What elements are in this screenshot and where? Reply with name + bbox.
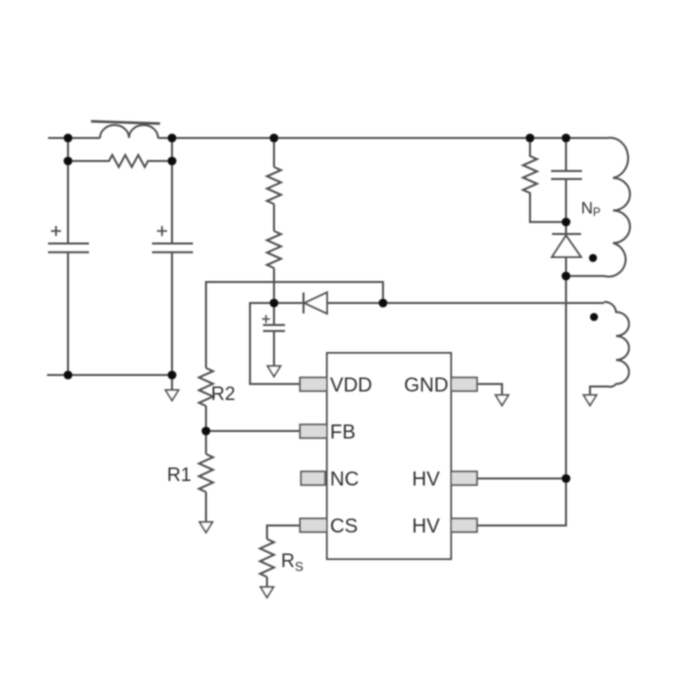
svg-text:R1: R1 <box>167 465 191 486</box>
transformer aux phase dot <box>590 313 598 321</box>
wire FB node to pin <box>206 430 300 432</box>
capacitor snubber plates <box>551 171 582 179</box>
junction diode output node <box>379 299 388 308</box>
wire diode D1 to winding node <box>565 257 567 276</box>
svg-text:NC: NC <box>330 469 359 491</box>
wire node to diode D2 <box>274 302 303 304</box>
junction snubber bottom <box>562 218 571 227</box>
pin CS box <box>300 519 327 533</box>
wire second input rail upper <box>171 138 173 244</box>
svg-text:FB: FB <box>330 422 356 444</box>
ground R1 stub <box>205 492 207 522</box>
wire VDD cap stub <box>273 303 275 325</box>
pin NC box <box>301 472 325 486</box>
capacitor VDD plates <box>263 325 285 331</box>
wire bottom input rail <box>47 374 172 376</box>
resistor snubber <box>523 138 566 222</box>
wire diode D2 to node <box>327 302 383 304</box>
ground input rail stub <box>171 375 173 390</box>
svg-text:CS: CS <box>330 516 358 538</box>
resistor Rs <box>260 539 274 577</box>
diode D1 stub <box>565 222 567 234</box>
wire startup divider top <box>273 138 275 167</box>
svg-text:VDD: VDD <box>330 375 372 397</box>
wire VDD loop <box>250 303 300 384</box>
pin GND box <box>451 378 477 392</box>
svg-text:NP: NP <box>581 200 601 220</box>
wire FB node to R1 <box>205 431 207 454</box>
svg-text:RS: RS <box>281 551 304 574</box>
junction snubber C top <box>562 134 571 143</box>
pin VDD box <box>300 378 327 392</box>
resistor startup lower <box>267 231 281 268</box>
ground Rs symbol <box>261 587 274 598</box>
svg-text:HV: HV <box>412 516 440 538</box>
junction startup divider top <box>270 134 279 143</box>
common-mode choke L1 arcs <box>100 125 158 138</box>
wire CS pin to Rs <box>267 526 300 540</box>
junction input top left <box>64 134 73 143</box>
wire HV rail <box>565 276 567 479</box>
wire top rail <box>48 137 607 139</box>
ground Rs stub <box>266 577 268 587</box>
junction choke resistor right <box>168 157 177 166</box>
ground input rail symbol <box>166 390 179 401</box>
capacitor C2 plates <box>152 244 193 253</box>
wire HV upper pin <box>477 478 566 480</box>
wire HV lower pin <box>477 479 566 526</box>
wire VDD cap to ground <box>273 331 275 366</box>
wire left input rail lower <box>67 252 69 375</box>
junction primary bottom <box>562 272 571 281</box>
wire VDD supply to aux winding <box>383 302 604 304</box>
wire GND pin to ground <box>478 384 502 395</box>
capacitor C1 plus sign <box>51 226 61 236</box>
op IC U1 body <box>327 353 451 559</box>
resistor R1 <box>199 454 213 492</box>
junction choke resistor left <box>64 157 73 166</box>
wire feedback loop R2 top <box>206 282 383 368</box>
wire R2 to FB node <box>205 406 207 431</box>
svg-text:HV: HV <box>412 469 440 491</box>
junction bottom rail left <box>64 371 73 380</box>
pin FB box <box>300 425 327 439</box>
junction snubber R top <box>526 134 535 143</box>
svg-text:GND: GND <box>404 375 448 397</box>
capacitor VDD plus sign <box>262 315 270 323</box>
ground aux winding symbol <box>584 395 597 406</box>
transformer aux winding top lead <box>590 302 629 395</box>
junction input top right <box>168 134 177 143</box>
ground R1 symbol <box>200 522 213 533</box>
capacitor snubber top stub <box>565 138 567 171</box>
ground GND pin symbol <box>496 395 509 406</box>
junction FB node <box>202 427 211 436</box>
junction bottom rail right <box>168 371 177 380</box>
diode D2 triangle <box>305 293 328 314</box>
pin HV2 box <box>451 519 477 533</box>
resistor startup upper <box>267 167 281 204</box>
diode D2 cathode bar <box>303 293 305 314</box>
resistor R2 <box>199 368 213 406</box>
diode D1 triangle <box>552 236 581 258</box>
wire startup divider middle <box>273 204 275 231</box>
transformer primary winding NP <box>566 138 630 277</box>
transformer primary phase dot <box>589 254 597 262</box>
wire left input rail upper <box>67 138 69 244</box>
svg-text:R2: R2 <box>211 384 235 405</box>
junction HV node <box>562 474 571 483</box>
capacitor C2 plus sign <box>157 226 167 236</box>
choke core bar <box>91 121 160 123</box>
ground VDD cap symbol <box>268 366 281 377</box>
wire startup divider bottom <box>273 268 275 303</box>
wire second input rail lower <box>171 252 173 375</box>
capacitor snubber bottom stub <box>565 179 567 222</box>
pin HV1 box <box>451 472 477 486</box>
junction VDD node <box>270 299 279 308</box>
capacitor C1 plates <box>48 244 89 253</box>
diode D1 cathode bar <box>552 233 581 235</box>
resistor parallel with choke <box>68 155 172 167</box>
